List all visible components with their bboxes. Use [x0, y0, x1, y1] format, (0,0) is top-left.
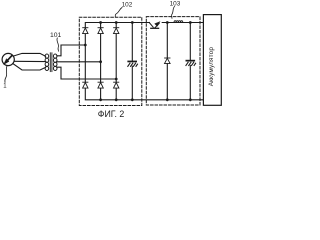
bridge leg 2 wire — [100, 23, 102, 28]
wire phase C generator to transformer — [13, 64, 46, 70]
diode D1 top leg1 — [83, 28, 88, 34]
wire secondary tap 2 to rectifier — [57, 61, 101, 63]
rectifier box 102 dashed border — [79, 17, 142, 105]
generator G circle — [2, 53, 14, 65]
leader line to label 101 — [57, 38, 59, 51]
bridge leg 3 wire — [115, 23, 117, 28]
bridge leg 1 wire — [84, 34, 86, 82]
leader line to label 1 — [5, 66, 7, 82]
svg-text:Аккумулятор: Аккумулятор — [208, 47, 215, 87]
wire secondary tap 3 to rectifier — [57, 67, 116, 79]
leader line to label 102 — [115, 8, 122, 17]
output capacitor C2 leg — [189, 23, 191, 60]
wire phase B generator to transformer — [14, 60, 45, 62]
smoothing capacitor C1 leg — [131, 23, 133, 61]
svg-text:102: 102 — [122, 2, 133, 9]
wire secondary tap 1 to rectifier — [57, 45, 86, 56]
generator arrow symbol — [4, 55, 12, 64]
leader line to label 103 — [172, 7, 175, 19]
converter box 103 dashed border — [146, 17, 200, 105]
junction dots bottom bus — [99, 98, 192, 101]
battery box — [203, 15, 221, 106]
svg-text:101: 101 — [50, 32, 62, 39]
capacitor C2 symbol — [186, 60, 196, 66]
transistor Q1 switch — [149, 22, 160, 29]
positive bus after switch — [162, 22, 203, 24]
transformer T1 primary winding — [45, 54, 49, 70]
positive bus — [85, 23, 149, 28]
capacitor C1 symbol — [127, 61, 137, 67]
wire phase A generator to transformer — [13, 53, 45, 56]
junction dots ac nodes — [84, 44, 118, 81]
svg-text:103: 103 — [170, 1, 181, 8]
svg-text:ФИГ. 2: ФИГ. 2 — [98, 109, 125, 119]
inductor L1 — [174, 21, 183, 23]
negative bus — [85, 89, 203, 100]
diode D5 bottom leg2 — [98, 82, 103, 88]
transformer core — [49, 53, 51, 72]
freewheel diode D7 symbol — [165, 58, 171, 64]
transformer T1 secondary winding — [53, 54, 57, 70]
freewheel diode D7 leg — [166, 23, 168, 58]
diode D3 top leg3 — [114, 28, 119, 34]
diode D2 top leg2 — [98, 28, 103, 34]
junction dots top bus — [99, 21, 192, 24]
diode D6 bottom leg3 — [114, 82, 119, 88]
diode D4 bottom leg1 — [83, 82, 88, 88]
